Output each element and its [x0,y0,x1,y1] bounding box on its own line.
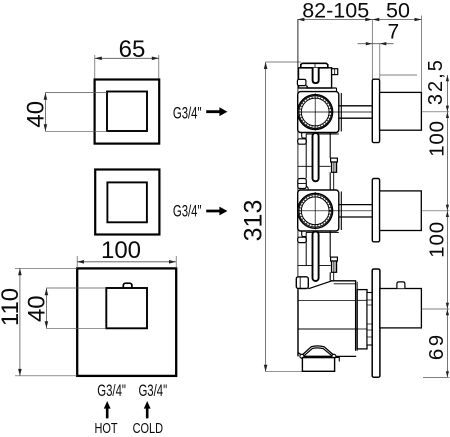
svg-text:G3/4": G3/4" [97,382,126,401]
svg-text:HOT: HOT [94,419,117,436]
svg-text:G3/4": G3/4" [138,382,167,401]
svg-text:G3/4": G3/4" [173,104,202,123]
svg-text:100: 100 [426,120,449,157]
svg-text:COLD: COLD [133,419,163,436]
svg-text:40: 40 [23,101,50,128]
svg-text:110: 110 [0,288,24,326]
svg-text:40: 40 [24,295,51,322]
svg-text:65: 65 [119,36,146,63]
svg-text:32,5: 32,5 [425,58,447,105]
svg-text:G3/4": G3/4" [173,202,202,221]
svg-text:50: 50 [386,0,410,22]
svg-text:82-105: 82-105 [302,0,369,23]
svg-text:100: 100 [426,221,449,258]
svg-text:313: 313 [240,200,268,242]
svg-text:100: 100 [101,237,141,264]
svg-text:7: 7 [387,21,399,44]
svg-text:69: 69 [425,332,448,360]
